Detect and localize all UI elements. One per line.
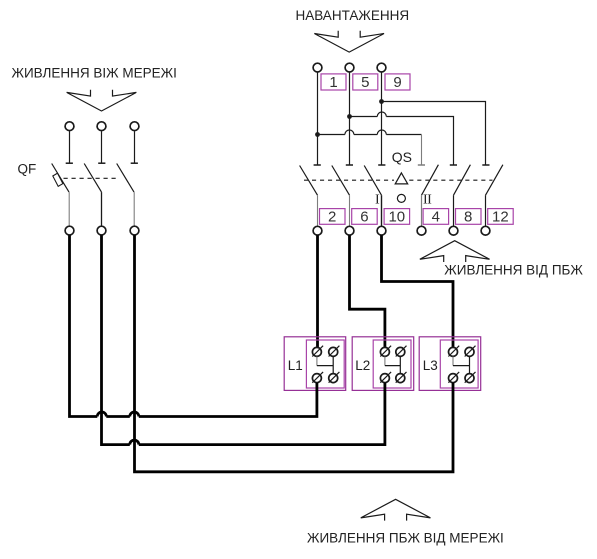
QS pole3 lower link xyxy=(381,195,383,226)
wire hop: bus1 over bus2 riser xyxy=(97,412,106,417)
svg-text:2: 2 xyxy=(328,208,336,225)
wire: QF pole3 to L3 output xyxy=(135,235,454,472)
wire: QF pole1 to L1 output (hops at P2,P3) xyxy=(70,235,317,416)
terminal box 4 xyxy=(423,209,449,225)
QS pole5 lower link xyxy=(453,195,455,226)
svg-text:1: 1 xyxy=(329,74,337,91)
svg-text:10: 10 xyxy=(388,208,405,225)
QS pole4 bottom terminal xyxy=(417,226,426,235)
L2 internal jumper xyxy=(384,357,386,366)
svg-text:9: 9 xyxy=(393,74,401,91)
QS pole2 blade xyxy=(332,166,350,196)
svg-text:5: 5 xyxy=(361,74,369,91)
L2 terminal bottom-right xyxy=(396,372,407,383)
wire: terminal 1 down to junction and contact xyxy=(317,72,319,165)
L3 terminal top-left xyxy=(448,346,459,357)
QF mechanical link dashed line xyxy=(64,177,118,179)
arrow: mains feed pointing down xyxy=(67,90,137,111)
wire: branch phase B to pole 8 (hop over phase C) xyxy=(350,117,454,165)
wire: gray stub down to pole 4 contact xyxy=(421,135,423,165)
svg-text:L3: L3 xyxy=(423,358,438,373)
QF pole1 blade xyxy=(52,164,69,193)
QF pole1 lower link (gray) xyxy=(68,192,70,226)
svg-text:4: 4 xyxy=(432,208,440,225)
svg-text:НАВАНТАЖЕННЯ: НАВАНТАЖЕННЯ xyxy=(296,8,410,23)
QS pole1 lower link (gray) xyxy=(317,195,319,226)
terminal box 12 xyxy=(488,209,514,225)
L1 terminal bottom-left xyxy=(312,372,323,383)
QS pole6 bottom terminal xyxy=(481,226,490,235)
wire hop: bus2 over bus3 riser xyxy=(130,440,139,445)
QF pole2 fixed contact tick xyxy=(98,162,105,164)
svg-text:6: 6 xyxy=(360,208,368,225)
QS pole5 contact tick xyxy=(450,164,457,166)
svg-text:I: I xyxy=(375,192,380,207)
QS pole6 lower link xyxy=(485,195,487,226)
node: junction on phase B xyxy=(347,114,352,119)
QS pole3 contact tick xyxy=(378,164,385,166)
wire hop: phase A over phase B xyxy=(345,130,354,135)
L3 terminal top-right xyxy=(465,346,476,357)
L2 terminal bottom-left xyxy=(380,372,391,383)
wire: terminal 9 down to junction and contact xyxy=(381,72,383,165)
QF pole3 top terminal xyxy=(130,122,139,131)
QF pole3 bottom terminal xyxy=(130,226,139,235)
QS pole1 blade xyxy=(300,166,318,196)
wire hop: bus1 over bus3 riser xyxy=(130,412,139,417)
QF pole1 stem wire xyxy=(69,131,71,163)
QS triangle symbol xyxy=(395,173,408,184)
QS pole3 bottom terminal xyxy=(377,226,386,235)
L1 outer box xyxy=(284,337,346,391)
L1 inner box xyxy=(306,340,344,388)
terminal box 10 xyxy=(384,209,410,225)
svg-text:ЖИВЛЕННЯ ВІЖ МЕРЕЖІ: ЖИВЛЕННЯ ВІЖ МЕРЕЖІ xyxy=(12,65,177,80)
node: junction on phase C xyxy=(379,99,384,104)
QS link dashed line (right of triangle) xyxy=(409,179,492,181)
QS pole6 blade xyxy=(486,165,503,196)
L1 terminal top-left xyxy=(312,346,323,357)
QS load terminal 9 xyxy=(377,63,386,72)
terminal box 8 xyxy=(456,209,482,225)
wire hop: phase B over phase C xyxy=(377,112,386,117)
QS pole4 blade xyxy=(422,165,439,196)
L1 internal jumper xyxy=(316,357,318,366)
QS circle symbol xyxy=(397,194,405,202)
QS pole6 contact tick xyxy=(482,164,489,166)
svg-text:QS: QS xyxy=(392,149,412,165)
arrow: UPS from mains pointing up xyxy=(361,499,431,520)
wire hop: phase A over phase C xyxy=(377,130,386,135)
svg-text:12: 12 xyxy=(492,208,509,225)
L2 outer box xyxy=(352,337,414,391)
arrow: UPS feed pointing up xyxy=(420,241,490,262)
QF pole3 blade xyxy=(117,164,134,193)
wire: QS pole1 output to L1 input xyxy=(316,235,319,348)
svg-text:L2: L2 xyxy=(355,358,370,373)
L2 terminal top-right xyxy=(396,346,407,357)
arrow: load pointing down xyxy=(314,31,384,52)
svg-text:L1: L1 xyxy=(288,358,303,373)
terminal box 6 xyxy=(352,209,378,225)
QS link dashed line (left of triangle) xyxy=(304,179,394,181)
QS pole3 blade xyxy=(364,166,381,196)
wire: terminal 5 down to junction and contact xyxy=(349,72,351,165)
svg-text:I: I xyxy=(427,192,432,207)
QF breaker rectangle on pole1 blade xyxy=(53,173,63,186)
QF pole2 bottom terminal xyxy=(97,226,106,235)
wire: QF pole2 to L2 output (hop at P3) xyxy=(102,235,385,444)
terminal box 9 xyxy=(385,74,410,90)
QS pole1 bottom terminal xyxy=(313,226,322,235)
QF pole3 lower link (gray) xyxy=(133,192,135,226)
QF pole1 top terminal xyxy=(65,122,74,131)
QF pole3 stem wire xyxy=(134,131,136,163)
terminal box 2 xyxy=(320,209,346,225)
L3 terminal bottom-right xyxy=(465,372,476,383)
QF pole3 fixed contact tick xyxy=(131,162,138,164)
node: junction on phase A xyxy=(315,132,320,137)
QF pole2 lower link xyxy=(101,192,103,226)
QF pole2 top terminal xyxy=(97,122,106,131)
terminal box 1 xyxy=(321,74,346,90)
svg-text:8: 8 xyxy=(464,208,472,225)
L3 outer box xyxy=(419,337,481,391)
L1 terminal bottom-right xyxy=(329,372,340,383)
QS pole2 lower link (gray) xyxy=(349,195,351,226)
L3 internal jumper xyxy=(452,357,454,366)
QS pole5 blade xyxy=(454,165,471,196)
wire: QS pole3 output to L3 input xyxy=(382,235,454,348)
QS pole2 bottom terminal xyxy=(345,226,354,235)
L3 inner box xyxy=(440,340,478,388)
wire: branch phase A to pole 4 (hops over B and C) xyxy=(318,134,422,136)
wire: branch phase C to pole 12 xyxy=(382,102,486,165)
svg-text:ЖИВЛЕННЯ ПБЖ ВІД МЕРЕЖІ: ЖИВЛЕННЯ ПБЖ ВІД МЕРЕЖІ xyxy=(307,531,504,546)
QS load terminal 1 xyxy=(313,63,322,72)
QS pole5 bottom terminal xyxy=(449,226,458,235)
QF pole1 fixed contact tick xyxy=(66,162,73,164)
terminal box 5 xyxy=(353,74,378,90)
QS pole2 contact tick xyxy=(346,164,353,166)
L3 terminal bottom-left xyxy=(448,372,459,383)
svg-text:ЖИВЛЕННЯ ВІД ПБЖ: ЖИВЛЕННЯ ВІД ПБЖ xyxy=(444,262,583,277)
L2 inner box xyxy=(373,340,411,388)
QF pole2 blade xyxy=(84,164,101,193)
L1 terminal top-right xyxy=(329,346,340,357)
L2 terminal top-left xyxy=(380,346,391,357)
QS pole4 contact tick xyxy=(418,164,425,166)
QF pole2 stem wire xyxy=(101,131,103,163)
svg-text:QF: QF xyxy=(18,162,37,177)
QF pole1 bottom terminal xyxy=(65,226,74,235)
QS load terminal 5 xyxy=(345,63,354,72)
QS pole1 contact tick xyxy=(314,164,321,166)
QS pole4 lower link (gray) xyxy=(421,195,423,226)
wire: QS pole2 output to L2 input xyxy=(350,235,385,348)
